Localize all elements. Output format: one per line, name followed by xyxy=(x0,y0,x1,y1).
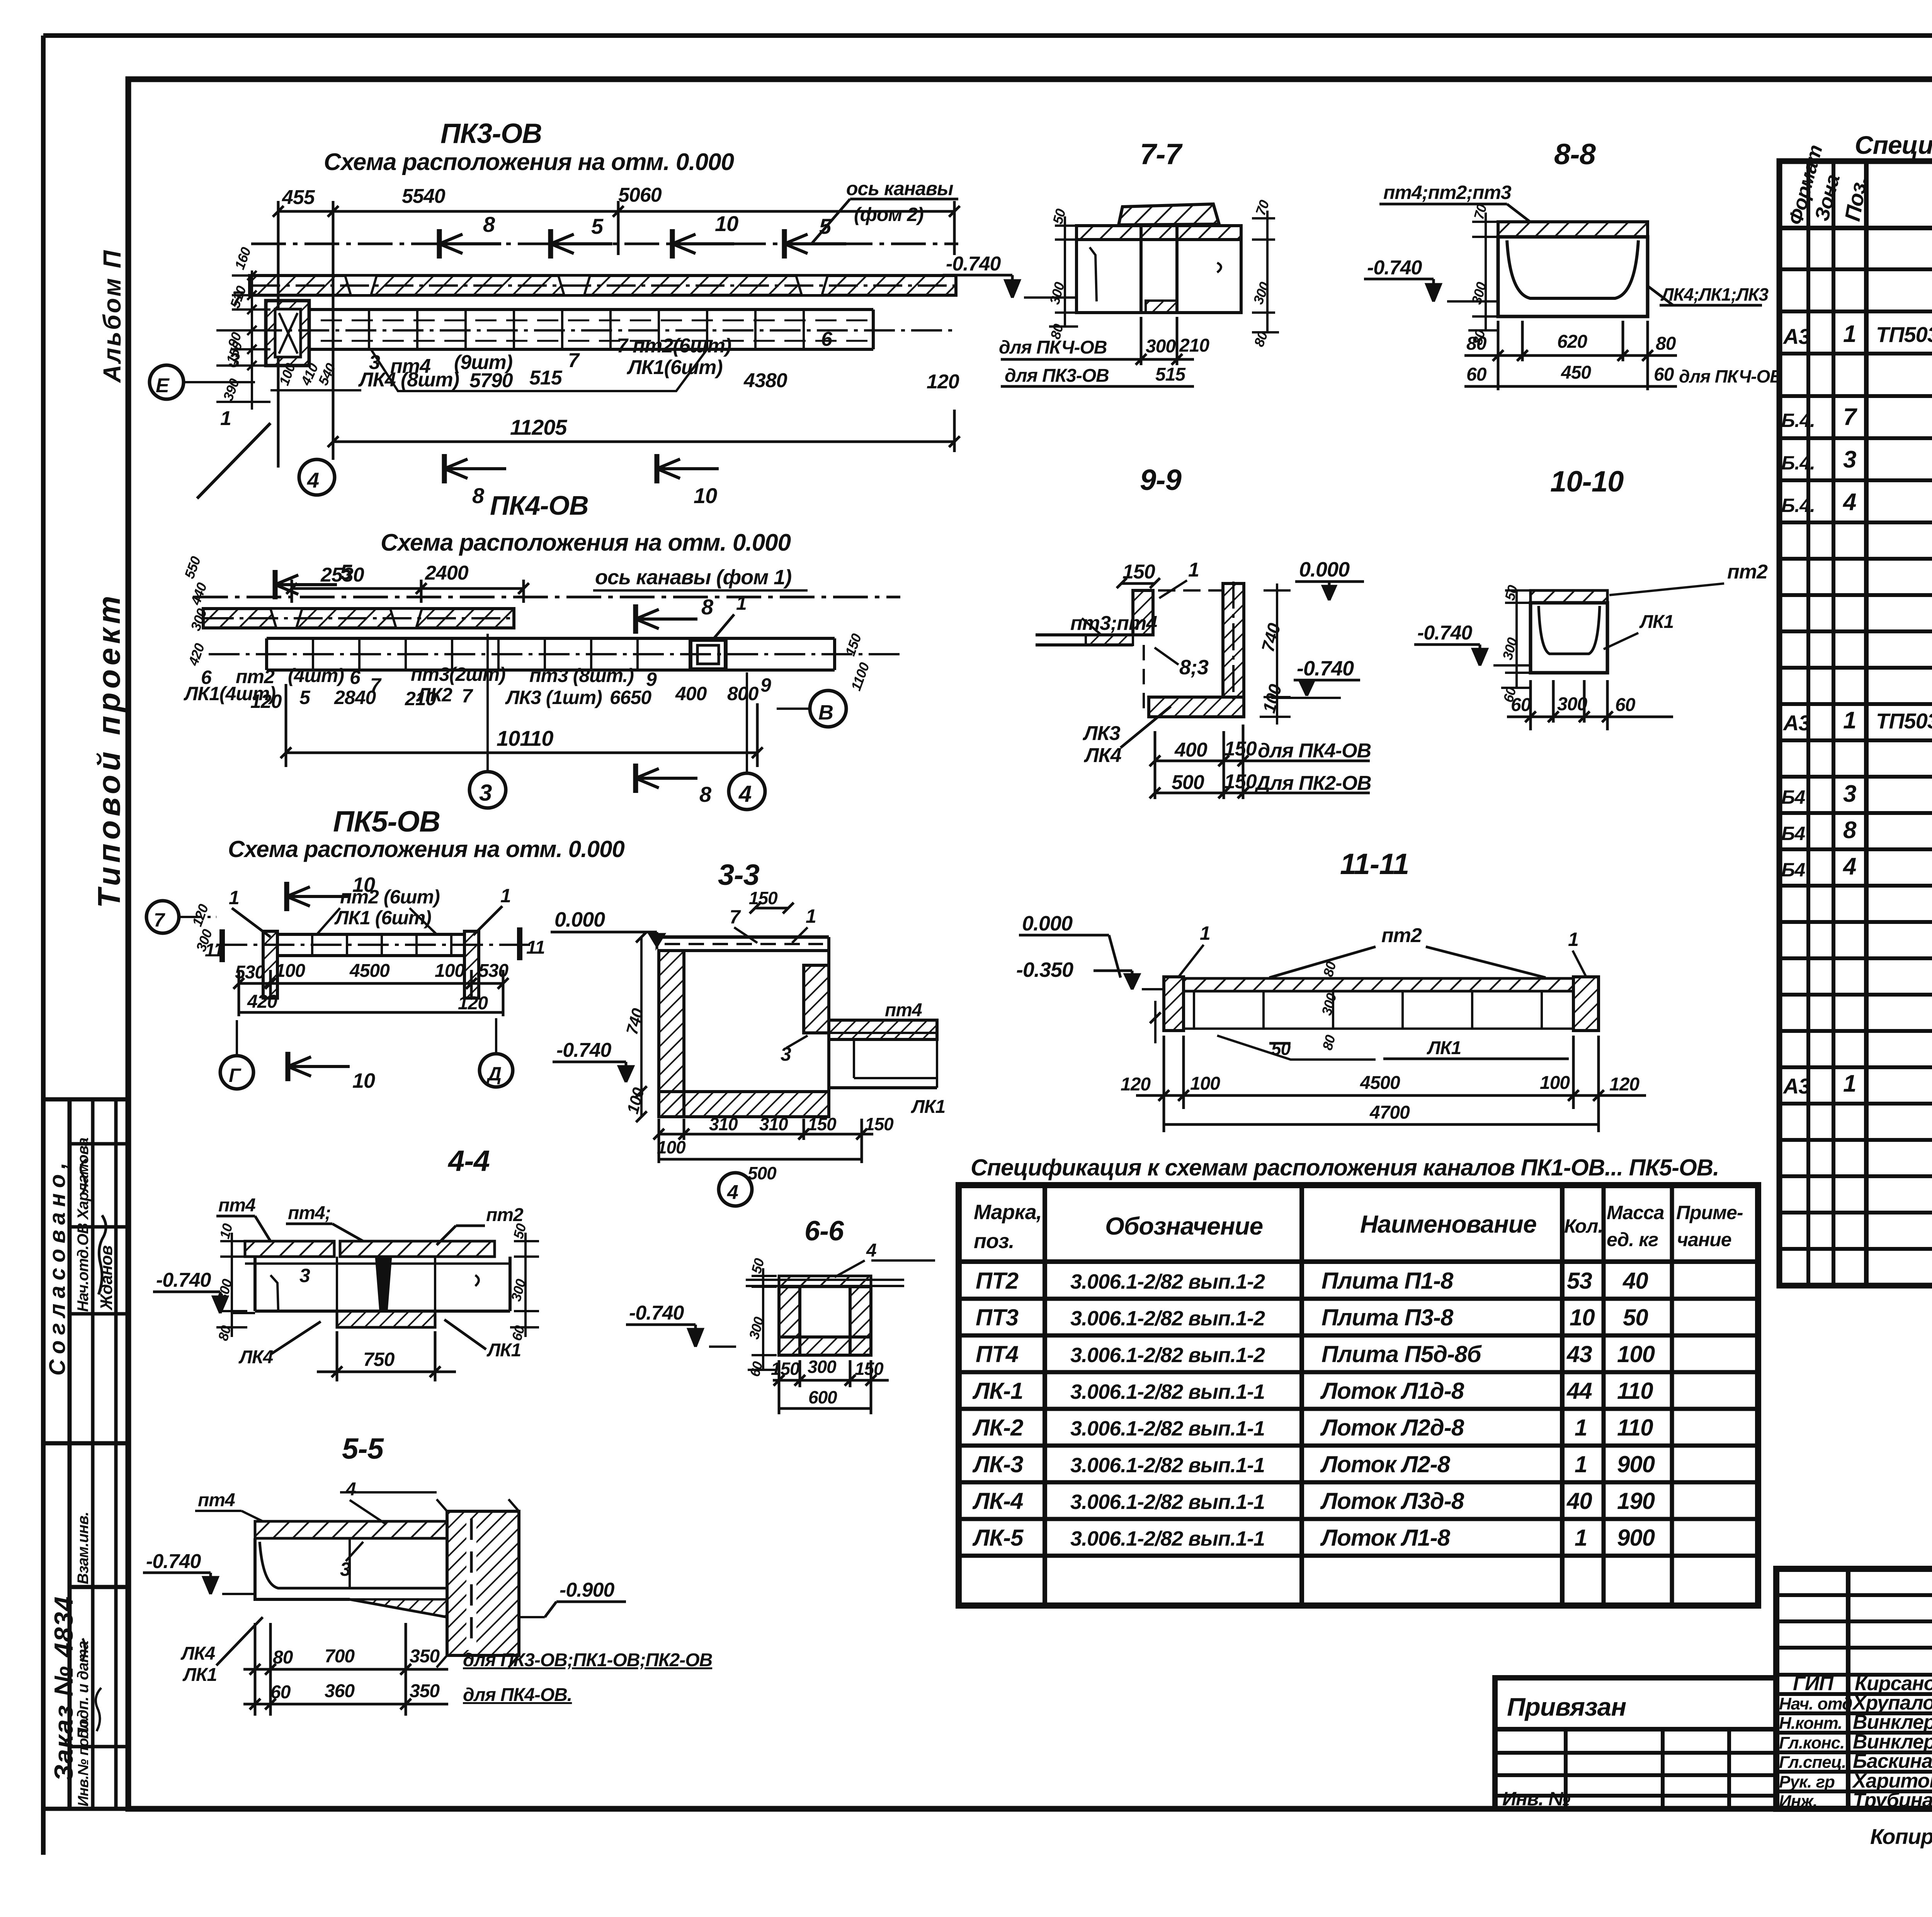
svg-text:500: 500 xyxy=(748,1163,777,1183)
svg-text:620: 620 xyxy=(1557,332,1587,352)
svg-text:Лоток Л1-8: Лоток Л1-8 xyxy=(1320,1525,1451,1551)
svg-text:-0.350: -0.350 xyxy=(1016,958,1073,981)
svg-text:ПК4-ОВ: ПК4-ОВ xyxy=(490,490,588,520)
svg-text:750: 750 xyxy=(363,1349,395,1370)
svg-text:80: 80 xyxy=(273,1647,293,1668)
svg-text:ось канавы: ось канавы xyxy=(846,178,953,199)
svg-text:5: 5 xyxy=(591,214,604,238)
svg-text:0.000: 0.000 xyxy=(1299,558,1350,581)
svg-text:1: 1 xyxy=(1575,1415,1587,1441)
svg-text:9: 9 xyxy=(760,674,771,696)
svg-text:120: 120 xyxy=(927,371,959,393)
svg-text:10110: 10110 xyxy=(497,726,553,750)
svg-text:пт2: пт2 xyxy=(1727,561,1768,583)
svg-text:300: 300 xyxy=(808,1357,837,1377)
svg-text:1: 1 xyxy=(1200,922,1210,944)
svg-text:Заказ № 4834: Заказ № 4834 xyxy=(49,1596,78,1781)
svg-text:150: 150 xyxy=(1122,561,1155,583)
svg-text:53: 53 xyxy=(1567,1268,1592,1294)
svg-text:310: 310 xyxy=(759,1114,788,1134)
svg-text:10: 10 xyxy=(715,211,738,236)
svg-text:Наименование: Наименование xyxy=(1360,1210,1536,1238)
svg-text:Б.4.: Б.4. xyxy=(1781,452,1815,474)
svg-text:поз.: поз. xyxy=(974,1230,1014,1253)
svg-text:11205: 11205 xyxy=(510,415,567,439)
svg-text:600: 600 xyxy=(808,1387,837,1407)
svg-text:7-7: 7-7 xyxy=(1140,138,1183,171)
svg-text:10-10: 10-10 xyxy=(1550,465,1624,498)
svg-text:чание: чание xyxy=(1677,1229,1731,1250)
svg-text:60: 60 xyxy=(1466,364,1487,385)
svg-text:60: 60 xyxy=(1654,364,1674,385)
svg-text:60: 60 xyxy=(270,1682,291,1703)
svg-text:500: 500 xyxy=(1172,771,1204,794)
svg-text:350: 350 xyxy=(410,1681,440,1701)
svg-text:ед. кг: ед. кг xyxy=(1607,1229,1658,1250)
svg-text:4-4: 4-4 xyxy=(447,1145,490,1177)
svg-text:900: 900 xyxy=(1617,1451,1655,1477)
svg-text:Лоток Л3д-8: Лоток Л3д-8 xyxy=(1320,1488,1464,1514)
svg-text:ТП503-4-45.87 КЖИ.130: ТП503-4-45.87 КЖИ.130 xyxy=(1876,322,1932,347)
svg-text:210: 210 xyxy=(1179,335,1209,356)
svg-text:1: 1 xyxy=(1575,1451,1587,1477)
svg-text:800: 800 xyxy=(727,683,759,704)
svg-text:8: 8 xyxy=(699,782,712,806)
svg-text:7: 7 xyxy=(1843,404,1857,430)
svg-text:4700: 4700 xyxy=(1369,1102,1410,1123)
svg-text:1: 1 xyxy=(220,407,231,430)
svg-text:ПК3-ОВ: ПК3-ОВ xyxy=(440,118,542,149)
svg-text:7 пт2(6шт): 7 пт2(6шт) xyxy=(617,335,731,357)
svg-text:-0.740: -0.740 xyxy=(629,1302,684,1324)
svg-text:120: 120 xyxy=(1121,1074,1151,1095)
svg-text:ГИП: ГИП xyxy=(1793,1672,1834,1695)
svg-text:Спецификация каналов ПК3-ОВ; П: Спецификация каналов ПК3-ОВ; ПК4-ОВ; ПК5… xyxy=(1855,131,1932,159)
svg-text:7: 7 xyxy=(730,906,741,928)
svg-text:Плита П3-8: Плита П3-8 xyxy=(1321,1305,1454,1330)
svg-text:9: 9 xyxy=(646,668,657,690)
svg-text:80: 80 xyxy=(1656,333,1676,354)
svg-text:10: 10 xyxy=(1570,1305,1595,1330)
svg-text:ПТ4: ПТ4 xyxy=(976,1341,1019,1367)
svg-text:ЛК1: ЛК1 xyxy=(1427,1038,1461,1058)
svg-text:Б4: Б4 xyxy=(1781,823,1805,844)
svg-text:Б4: Б4 xyxy=(1781,786,1805,808)
svg-text:пт4: пт4 xyxy=(218,1195,255,1216)
svg-text:А3: А3 xyxy=(1782,711,1810,735)
svg-text:9-9: 9-9 xyxy=(1140,464,1182,497)
svg-text:10: 10 xyxy=(694,483,717,508)
svg-text:3: 3 xyxy=(299,1265,310,1286)
svg-text:Инв. №: Инв. № xyxy=(1502,1788,1570,1810)
svg-text:Баскина: Баскина xyxy=(1853,1750,1932,1772)
svg-text:3-3: 3-3 xyxy=(718,859,760,891)
svg-text:6: 6 xyxy=(821,328,833,350)
svg-text:Масса: Масса xyxy=(1607,1202,1664,1223)
svg-text:Б.4.: Б.4. xyxy=(1781,410,1815,431)
svg-text:350: 350 xyxy=(410,1646,440,1667)
svg-text:4: 4 xyxy=(1842,489,1856,515)
svg-text:1: 1 xyxy=(1568,929,1578,950)
svg-text:530: 530 xyxy=(235,962,265,983)
svg-text:530: 530 xyxy=(478,961,509,981)
svg-text:6: 6 xyxy=(350,667,361,688)
svg-text:190: 190 xyxy=(1617,1488,1655,1514)
svg-text:7: 7 xyxy=(462,685,473,707)
svg-text:ЛК-1: ЛК-1 xyxy=(972,1378,1023,1404)
svg-text:пт3(2шт): пт3(2шт) xyxy=(411,663,505,685)
svg-text:Альбом П: Альбом П xyxy=(98,249,126,383)
svg-text:0.000: 0.000 xyxy=(1022,912,1073,935)
svg-text:0.000: 0.000 xyxy=(554,908,605,931)
svg-text:-0.740: -0.740 xyxy=(556,1039,612,1061)
svg-text:ЛК1: ЛК1 xyxy=(911,1097,945,1117)
svg-text:пт4: пт4 xyxy=(885,1000,922,1021)
svg-text:пт3;пт4: пт3;пт4 xyxy=(1070,612,1157,634)
svg-text:ось канавы (фом 1): ось канавы (фом 1) xyxy=(595,566,791,589)
svg-text:Лоток Л2д-8: Лоток Л2д-8 xyxy=(1320,1415,1464,1441)
svg-text:60: 60 xyxy=(1511,695,1531,715)
svg-text:150: 150 xyxy=(1224,771,1257,793)
svg-text:Копировал: Коноваленко: Копировал: Коноваленко xyxy=(1870,1824,1932,1849)
svg-text:8: 8 xyxy=(1843,817,1857,844)
svg-text:Б.4.: Б.4. xyxy=(1781,495,1815,516)
svg-text:3.006.1-2/82 вып.1-2: 3.006.1-2/82 вып.1-2 xyxy=(1070,1270,1265,1293)
svg-text:43: 43 xyxy=(1566,1341,1592,1367)
svg-text:1: 1 xyxy=(1843,1070,1856,1097)
svg-text:3: 3 xyxy=(1843,446,1856,473)
svg-text:Типовой проект: Типовой проект xyxy=(92,592,127,908)
svg-text:Спецификация к схемам располож: Спецификация к схемам расположения канал… xyxy=(971,1155,1719,1180)
svg-text:Д: Д xyxy=(486,1063,501,1085)
svg-text:11-11: 11-11 xyxy=(1340,848,1409,881)
svg-text:4: 4 xyxy=(866,1240,876,1261)
svg-text:150: 150 xyxy=(771,1359,800,1379)
svg-text:120: 120 xyxy=(250,691,282,712)
svg-text:5790: 5790 xyxy=(469,369,513,392)
svg-text:6-6: 6-6 xyxy=(804,1216,844,1247)
svg-text:для ПК3-ОВ: для ПК3-ОВ xyxy=(1005,366,1109,386)
svg-text:3.006.1-2/82 вып.1-1: 3.006.1-2/82 вып.1-1 xyxy=(1070,1380,1265,1403)
svg-text:8: 8 xyxy=(472,483,485,508)
svg-text:ЛК1: ЛК1 xyxy=(182,1665,217,1685)
svg-text:150: 150 xyxy=(1224,738,1257,760)
svg-text:455: 455 xyxy=(282,186,315,209)
svg-text:ЛК-2: ЛК-2 xyxy=(972,1415,1023,1441)
svg-text:ТП503-4-45.87 КЖИ.130: ТП503-4-45.87 КЖИ.130 xyxy=(1876,709,1932,733)
svg-text:Схема расположения на отм. 0.: Схема расположения на отм. 0.000 xyxy=(324,149,734,175)
svg-text:700: 700 xyxy=(325,1646,355,1667)
svg-text:1: 1 xyxy=(1843,707,1856,734)
svg-text:400: 400 xyxy=(1174,739,1207,761)
svg-text:1: 1 xyxy=(229,887,239,908)
svg-text:Инж.: Инж. xyxy=(1779,1792,1817,1811)
svg-text:5: 5 xyxy=(299,687,311,708)
svg-text:ЛК1: ЛК1 xyxy=(1639,612,1673,632)
svg-text:4: 4 xyxy=(738,781,752,807)
svg-text:5: 5 xyxy=(819,214,832,238)
svg-text:4380: 4380 xyxy=(743,369,787,392)
svg-text:3.006.1-2/82 вып.1-2: 3.006.1-2/82 вып.1-2 xyxy=(1070,1307,1265,1330)
svg-text:для ПКЧ-ОВ: для ПКЧ-ОВ xyxy=(1679,366,1782,386)
svg-text:3: 3 xyxy=(1843,781,1856,807)
svg-text:Схема расположения на отм. 0.0: Схема расположения на отм. 0.000 xyxy=(381,529,791,556)
svg-text:515: 515 xyxy=(1155,364,1186,385)
svg-text:ЛК4;ЛК1;ЛК3: ЛК4;ЛК1;ЛК3 xyxy=(1660,284,1769,304)
svg-text:для ПК3-ОВ;ПК1-ОВ;ПК2-ОВ: для ПК3-ОВ;ПК1-ОВ;ПК2-ОВ xyxy=(463,1650,712,1670)
svg-text:4: 4 xyxy=(345,1479,356,1500)
svg-text:-0.740: -0.740 xyxy=(946,253,1001,275)
svg-text:110: 110 xyxy=(1617,1378,1653,1404)
svg-text:Е: Е xyxy=(156,374,170,397)
svg-text:450: 450 xyxy=(1561,362,1591,383)
svg-text:100: 100 xyxy=(1617,1341,1655,1367)
svg-text:100: 100 xyxy=(657,1137,686,1157)
svg-text:2400: 2400 xyxy=(425,562,469,584)
svg-text:11: 11 xyxy=(526,937,545,958)
svg-text:Трубина: Трубина xyxy=(1853,1789,1932,1812)
svg-text:7: 7 xyxy=(154,909,165,931)
svg-text:110: 110 xyxy=(1617,1415,1653,1441)
svg-text:Г: Г xyxy=(229,1065,241,1086)
svg-text:ПТ2: ПТ2 xyxy=(976,1268,1019,1294)
svg-text:900: 900 xyxy=(1617,1525,1655,1551)
svg-text:4500: 4500 xyxy=(349,961,390,981)
svg-text:Марка,: Марка, xyxy=(974,1201,1042,1224)
svg-text:-0.740: -0.740 xyxy=(1367,257,1422,279)
svg-text:Б4: Б4 xyxy=(1781,859,1805,881)
svg-text:Нач. отд: Нач. отд xyxy=(1779,1694,1852,1713)
svg-text:Привязан: Привязан xyxy=(1507,1692,1626,1721)
svg-text:5540: 5540 xyxy=(402,185,446,208)
svg-text:ЛК-5: ЛК-5 xyxy=(972,1525,1024,1551)
svg-text:Обозначение: Обозначение xyxy=(1105,1212,1263,1240)
svg-text:5060: 5060 xyxy=(618,184,662,206)
svg-text:ЛК1(6шт): ЛК1(6шт) xyxy=(626,356,723,379)
svg-text:420: 420 xyxy=(247,992,277,1012)
svg-text:2840: 2840 xyxy=(334,687,376,708)
svg-text:100: 100 xyxy=(435,961,465,981)
svg-text:ЛК1: ЛК1 xyxy=(486,1340,521,1361)
svg-text:Гл.конс.: Гл.конс. xyxy=(1779,1733,1844,1752)
svg-text:ЛК4: ЛК4 xyxy=(238,1347,273,1368)
svg-text:Гл.спец.: Гл.спец. xyxy=(1779,1753,1846,1772)
svg-text:1: 1 xyxy=(1575,1525,1587,1551)
svg-text:ЛК2: ЛК2 xyxy=(416,684,452,706)
svg-text:Лоток Л1д-8: Лоток Л1д-8 xyxy=(1320,1378,1464,1404)
svg-text:3.006.1-2/82 вып.1-1: 3.006.1-2/82 вып.1-1 xyxy=(1070,1417,1265,1440)
svg-text:ЛК4: ЛК4 xyxy=(1083,744,1122,767)
svg-text:44: 44 xyxy=(1566,1378,1592,1404)
svg-text:пт2: пт2 xyxy=(486,1205,524,1225)
svg-text:ЛК4: ЛК4 xyxy=(180,1643,215,1664)
svg-text:Плита П1-8: Плита П1-8 xyxy=(1321,1268,1454,1294)
svg-text:8;3: 8;3 xyxy=(1179,656,1209,679)
svg-text:(4шт): (4шт) xyxy=(288,665,344,686)
svg-text:Схема расположения на отм. 0.0: Схема расположения на отм. 0.000 xyxy=(228,836,625,862)
svg-text:ЛК1 (6шт): ЛК1 (6шт) xyxy=(334,907,431,929)
svg-text:8: 8 xyxy=(483,212,495,236)
svg-text:А3: А3 xyxy=(1782,324,1810,349)
svg-text:100: 100 xyxy=(275,961,305,981)
svg-text:ЛК3 (1шт): ЛК3 (1шт) xyxy=(505,687,602,708)
svg-text:Лоток Л2-8: Лоток Л2-8 xyxy=(1320,1451,1451,1477)
svg-text:Плита П5д-8б: Плита П5д-8б xyxy=(1321,1341,1482,1367)
svg-text:5-5: 5-5 xyxy=(342,1432,384,1465)
svg-text:1: 1 xyxy=(806,905,816,927)
svg-text:40: 40 xyxy=(1566,1488,1592,1514)
svg-text:80: 80 xyxy=(1466,333,1487,354)
svg-text:100: 100 xyxy=(1540,1073,1570,1093)
svg-text:Согласовано,: Согласовано, xyxy=(45,1157,70,1376)
svg-text:-0.900: -0.900 xyxy=(560,1579,615,1601)
svg-text:3.006.1-2/82 вып.1-1: 3.006.1-2/82 вып.1-1 xyxy=(1070,1454,1265,1477)
svg-text:3.006.1-2/82 вып.1-2: 3.006.1-2/82 вып.1-2 xyxy=(1070,1344,1265,1367)
svg-text:300: 300 xyxy=(1557,694,1587,714)
svg-text:150: 150 xyxy=(865,1114,894,1134)
svg-text:В: В xyxy=(818,701,833,724)
svg-text:-0.740: -0.740 xyxy=(156,1269,211,1291)
svg-text:Для ПК2-ОВ: Для ПК2-ОВ xyxy=(1254,772,1371,794)
svg-text:(фом 2): (фом 2) xyxy=(854,204,923,225)
svg-text:пт4;пт2;пт3: пт4;пт2;пт3 xyxy=(1383,182,1512,203)
svg-text:Кол.: Кол. xyxy=(1564,1215,1603,1237)
svg-text:ПТ3: ПТ3 xyxy=(976,1305,1019,1330)
svg-text:8-8: 8-8 xyxy=(1554,138,1596,171)
svg-text:3: 3 xyxy=(479,780,492,806)
svg-text:50: 50 xyxy=(1271,1039,1291,1059)
svg-text:150: 150 xyxy=(808,1114,837,1134)
svg-text:8: 8 xyxy=(701,595,714,619)
svg-text:Н.конт.: Н.конт. xyxy=(1779,1714,1842,1733)
svg-text:Винклер: Винклер xyxy=(1853,1711,1932,1733)
svg-text:3.006.1-2/82 вып.1-1: 3.006.1-2/82 вып.1-1 xyxy=(1070,1490,1265,1514)
svg-text:2530: 2530 xyxy=(320,564,364,586)
svg-text:-0.740: -0.740 xyxy=(146,1550,201,1573)
svg-text:пт4: пт4 xyxy=(198,1490,235,1510)
svg-text:-0.740: -0.740 xyxy=(1297,657,1354,680)
svg-text:4: 4 xyxy=(1842,853,1856,880)
svg-text:для ПК4-ОВ: для ПК4-ОВ xyxy=(1258,740,1371,762)
svg-text:150: 150 xyxy=(749,888,778,908)
svg-text:А3: А3 xyxy=(1782,1074,1810,1098)
svg-text:310: 310 xyxy=(709,1114,738,1134)
svg-text:-0.740: -0.740 xyxy=(1417,622,1473,644)
svg-text:7: 7 xyxy=(568,349,580,372)
svg-text:для ПКЧ-ОВ: для ПКЧ-ОВ xyxy=(999,337,1107,358)
svg-text:1: 1 xyxy=(1843,321,1856,347)
svg-text:Рук. гр: Рук. гр xyxy=(1779,1772,1835,1791)
svg-text:ЛК4 (8шт): ЛК4 (8шт) xyxy=(358,369,459,391)
svg-text:4: 4 xyxy=(307,468,319,492)
svg-text:4500: 4500 xyxy=(1360,1073,1400,1093)
svg-text:ЛК-3: ЛК-3 xyxy=(972,1451,1023,1477)
svg-text:пт2: пт2 xyxy=(1381,924,1422,947)
svg-text:300: 300 xyxy=(1146,336,1176,357)
svg-text:пт2 (6шт): пт2 (6шт) xyxy=(340,886,440,908)
svg-text:120: 120 xyxy=(458,993,488,1014)
svg-text:Взам.инв.: Взам.инв. xyxy=(75,1512,92,1584)
svg-text:4: 4 xyxy=(727,1181,738,1204)
svg-text:ПК5-ОВ: ПК5-ОВ xyxy=(333,805,440,838)
svg-text:515: 515 xyxy=(529,367,563,389)
svg-text:150: 150 xyxy=(855,1359,884,1379)
svg-text:Приме-: Приме- xyxy=(1676,1202,1743,1223)
svg-text:1: 1 xyxy=(1188,559,1199,581)
svg-text:400: 400 xyxy=(675,683,707,704)
svg-text:10: 10 xyxy=(352,1069,375,1092)
svg-text:пт3 (8шт.): пт3 (8шт.) xyxy=(529,665,634,686)
svg-text:40: 40 xyxy=(1622,1268,1648,1294)
svg-text:50: 50 xyxy=(1623,1305,1648,1330)
svg-text:для ПК4-ОВ.: для ПК4-ОВ. xyxy=(463,1685,572,1705)
svg-text:360: 360 xyxy=(325,1681,355,1701)
svg-text:6650: 6650 xyxy=(610,687,651,708)
svg-text:ЛК3: ЛК3 xyxy=(1082,722,1121,745)
svg-text:ЛК-4: ЛК-4 xyxy=(972,1488,1023,1514)
svg-text:3.006.1-2/82 вып.1-1: 3.006.1-2/82 вып.1-1 xyxy=(1070,1527,1265,1550)
svg-text:пт4;: пт4; xyxy=(288,1203,331,1223)
svg-text:100: 100 xyxy=(1190,1073,1220,1094)
svg-text:1: 1 xyxy=(736,592,747,614)
svg-text:1: 1 xyxy=(500,885,511,907)
svg-text:120: 120 xyxy=(1609,1074,1639,1095)
svg-text:3: 3 xyxy=(340,1558,351,1580)
svg-text:60: 60 xyxy=(1615,695,1636,715)
